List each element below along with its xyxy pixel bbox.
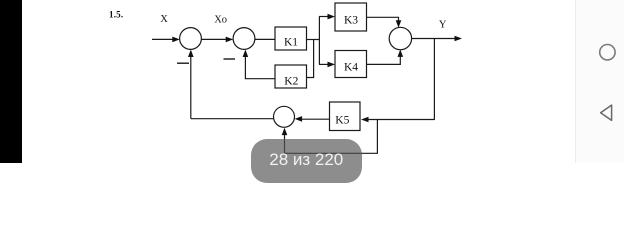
arrow into S4 bottom — [282, 128, 288, 136]
summing junction S1 — [180, 28, 202, 50]
arrow into S1 bottom — [188, 50, 194, 58]
block K5 — [330, 102, 361, 131]
block K4 — [335, 51, 367, 78]
wire up into S1 bottom — [190, 57, 192, 119]
left black bar (screen edge) — [0, 0, 22, 163]
wire K2 output to S2 bottom — [245, 57, 275, 79]
block K1 — [275, 27, 307, 50]
wire K2 tap from K1 output — [307, 40, 314, 78]
wire S2 to K1 — [255, 38, 275, 40]
arrow into S1 — [172, 37, 180, 43]
pill text 28 из 220 — [251, 151, 363, 168]
svg-text:K5: K5 — [335, 114, 349, 126]
arrow into S2 bottom — [243, 50, 249, 58]
back button triangle — [601, 105, 612, 120]
block K3 — [335, 3, 367, 31]
arrow into S3 bottom — [398, 49, 404, 57]
arrow into K3 — [328, 14, 336, 20]
summing junction S3 — [389, 27, 411, 49]
svg-text:K3: K3 — [344, 14, 358, 26]
wire X input — [152, 38, 173, 40]
nav bar background — [576, 0, 624, 163]
summing junction S4 — [274, 106, 295, 127]
arrow into S4 right — [295, 116, 303, 122]
page indicator pill overlay — [251, 139, 363, 183]
wire S4 output left — [191, 118, 274, 120]
wire S1 to S2 — [201, 38, 226, 40]
arrow into K5 — [361, 117, 369, 123]
svg-text:K1: K1 — [284, 36, 298, 48]
nav icons — [576, 0, 624, 163]
wire feedback down from Y node — [433, 39, 435, 120]
svg-text:K2: K2 — [284, 76, 298, 88]
svg-text:X: X — [160, 14, 168, 25]
wire K5 output to S4 — [302, 118, 330, 120]
wire feedback into K5 — [368, 119, 434, 121]
wire K3 output to S3 top — [367, 17, 399, 21]
wire into K4 — [319, 63, 328, 65]
arrow output Y — [455, 36, 463, 42]
minus sign at S1 — [177, 62, 189, 64]
wire into K3 — [319, 16, 328, 18]
nav bar separator — [575, 0, 576, 163]
block diagram svg — [0, 0, 624, 163]
svg-text:Y: Y — [439, 20, 447, 31]
home button circle — [600, 45, 615, 60]
wire up into S4 bottom — [284, 135, 286, 154]
arrow into K4 — [328, 62, 336, 68]
minus sign at S2 — [224, 58, 236, 60]
svg-text:K4: K4 — [344, 62, 358, 74]
wire feedback branch down — [376, 120, 378, 154]
svg-text:Xo: Xo — [214, 14, 227, 25]
arrow into S3 top — [396, 20, 402, 28]
summing junction S2 — [233, 28, 255, 50]
wire branch vertical K3-K4 — [318, 17, 320, 65]
block K2 — [275, 65, 307, 88]
wire K4 output to S3 bottom — [367, 57, 401, 65]
arrow into S2 — [226, 37, 234, 43]
wire bottom horizontal — [285, 152, 378, 154]
wire K1 output to branch node — [307, 39, 320, 41]
svg-text:1.5.: 1.5. — [109, 10, 123, 20]
wire S3 output Y — [412, 38, 456, 40]
